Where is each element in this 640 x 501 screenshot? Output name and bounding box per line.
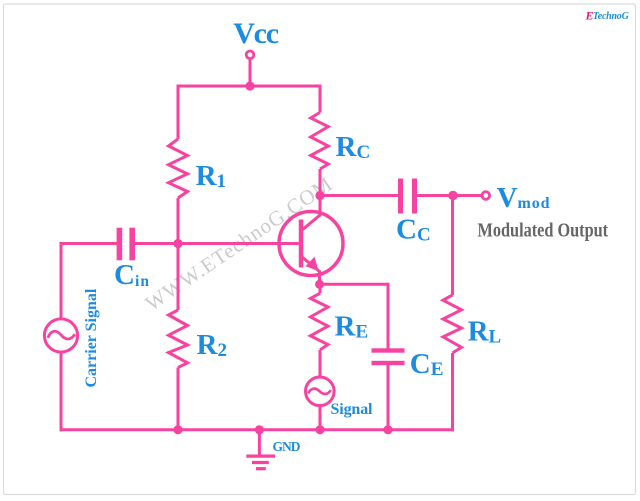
svg-text:RC: RC [336, 131, 371, 163]
svg-text:Signal: Signal [331, 401, 374, 418]
resistor R2 [169, 310, 188, 368]
resistor RE [310, 293, 328, 350]
wire Vcc to top rail [249, 58, 252, 86]
terminal Vcc [246, 51, 254, 59]
svg-text:R2: R2 [197, 329, 227, 361]
junction collector node [315, 191, 324, 200]
ground [246, 456, 275, 469]
capacitor CE [372, 348, 405, 365]
wire RE top lead [319, 285, 322, 293]
wire carrier to bottom rail [60, 352, 63, 431]
svg-text:Carrier Signal: Carrier Signal [83, 288, 100, 387]
junction base node [173, 239, 182, 248]
svg-text:Modulated Output: Modulated Output [478, 220, 609, 241]
wire R1 top lead [177, 85, 180, 140]
wire CE bottom lead [387, 365, 390, 430]
wire bottom rail [60, 428, 455, 431]
wire RE to signal source [319, 350, 322, 377]
wire left input to Cin [61, 242, 117, 245]
capacitor CC [398, 179, 417, 214]
wire RC top lead [319, 85, 322, 113]
svg-text:Vmod: Vmod [497, 182, 550, 214]
transistor Q1 [279, 196, 343, 286]
junction Vcc rail [245, 81, 254, 90]
svg-text:CC: CC [396, 213, 431, 245]
logo ETechnoG [585, 8, 630, 22]
junction output node [448, 191, 457, 200]
svg-text:GND: GND [273, 439, 301, 454]
wire RL top lead [451, 196, 454, 296]
svg-text:Vcc: Vcc [233, 17, 279, 50]
junction ground node [255, 425, 264, 434]
resistor RL [443, 295, 462, 353]
svg-text:R1: R1 [196, 160, 226, 192]
wire R2 bottom lead [177, 368, 180, 430]
wire R1 bottom to base node [177, 198, 180, 244]
wire base [135, 242, 299, 245]
wire top rail [178, 85, 320, 88]
junction signal bottom [315, 425, 324, 434]
wire signal to bottom rail [319, 405, 322, 430]
junction emitter node [315, 280, 324, 289]
wire collector node to CC [320, 194, 398, 197]
svg-text:TechnoG: TechnoG [593, 11, 630, 22]
wire R2 top lead [177, 244, 180, 311]
wire CC to output terminal [417, 194, 482, 197]
wire emitter node to CE branch [320, 283, 389, 286]
wire CE top lead [387, 283, 390, 349]
junction R2 bottom [173, 425, 182, 434]
svg-text:Cin: Cin [114, 259, 149, 291]
source signal [306, 377, 335, 406]
svg-text:RE: RE [335, 311, 369, 343]
resistor RC [311, 112, 329, 169]
ground stem [258, 430, 261, 456]
source carrier signal [44, 319, 77, 352]
wire RL bottom lead [451, 353, 454, 431]
terminal Vmod [482, 192, 490, 200]
wire left drop [60, 242, 63, 319]
resistor R1 [169, 139, 188, 198]
svg-text:CE: CE [410, 348, 444, 380]
junction CE bottom [383, 425, 392, 434]
svg-text:RL: RL [468, 316, 502, 348]
capacitor Cin [117, 228, 135, 261]
wire RC bottom to collector node [319, 169, 322, 196]
